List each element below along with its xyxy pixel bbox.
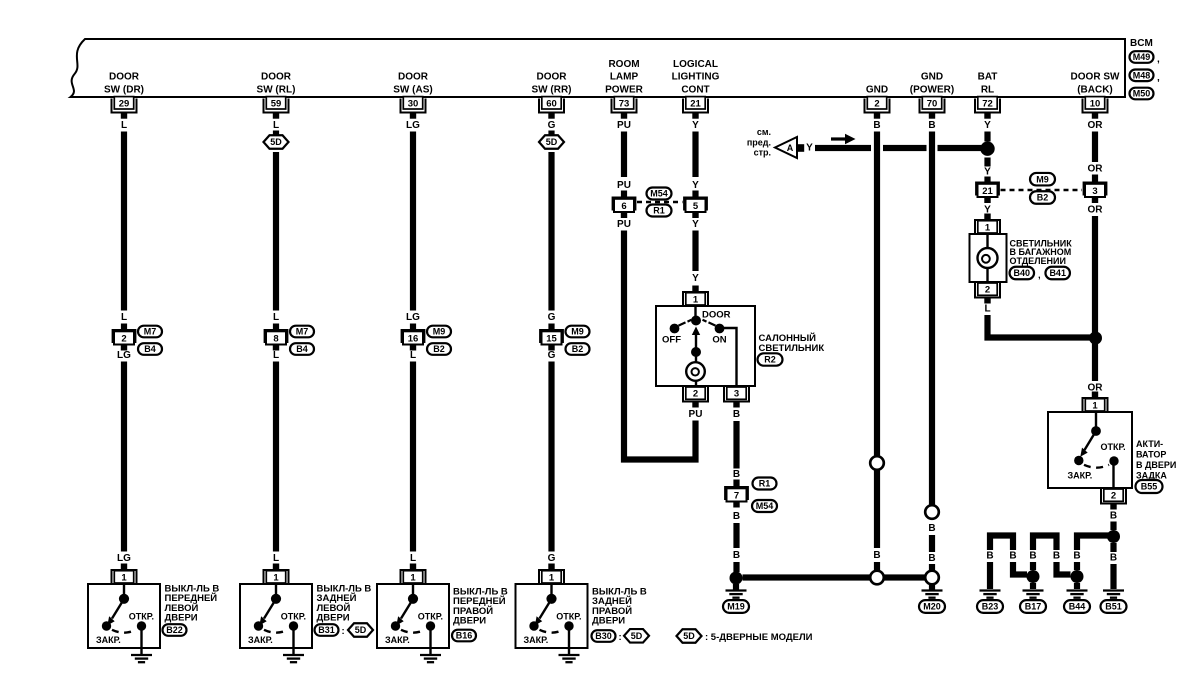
svg-text:Y: Y: [984, 120, 991, 131]
svg-text:B: B: [928, 523, 935, 534]
direction arrow: [831, 134, 856, 144]
svg-text::: :: [342, 626, 345, 637]
wire label L: [121, 120, 127, 131]
svg-text:В ДВЕРИ: В ДВЕРИ: [1136, 460, 1176, 470]
wire label B: [733, 409, 740, 420]
connector oval M9: [427, 326, 451, 338]
trunk lamp bulb: [978, 234, 998, 282]
wire stub: [692, 191, 698, 197]
wire label PU: [689, 409, 703, 420]
svg-text:15: 15: [546, 334, 557, 345]
connector oval M49: [1130, 51, 1161, 65]
wire label LG: [406, 312, 420, 323]
svg-text:R2: R2: [764, 355, 776, 365]
svg-text:G: G: [548, 312, 556, 323]
svg-text:CONT: CONT: [681, 85, 709, 96]
connector oval M7: [290, 326, 314, 338]
svg-text::: :: [619, 632, 622, 643]
svg-text:B23: B23: [982, 602, 999, 612]
svg-text:АКТИ-: АКТИ-: [1136, 439, 1163, 449]
ground M20: [922, 591, 943, 598]
wire OR down to junction: [1092, 216, 1098, 381]
selector arrow: [692, 327, 700, 353]
component oval B16: [452, 630, 476, 642]
svg-text:70: 70: [927, 99, 938, 110]
activator pin 1: [1083, 392, 1108, 413]
wire label L: [273, 350, 279, 361]
svg-text:см.: см.: [757, 127, 771, 137]
wire B to bus junction: [874, 562, 880, 571]
svg-text:R1: R1: [759, 479, 771, 489]
svg-text:LAMP: LAMP: [610, 72, 639, 83]
svg-text:Y: Y: [692, 273, 699, 284]
BCM module body (control unit band): [71, 39, 1126, 97]
wire label B: [928, 553, 935, 564]
svg-text:L: L: [121, 120, 127, 131]
svg-text:30: 30: [408, 99, 419, 110]
pin label GND: [866, 85, 888, 96]
svg-text:1: 1: [273, 572, 279, 583]
svg-text:ОТКР.: ОТКР.: [129, 612, 154, 622]
ground oval B44: [1064, 600, 1090, 613]
label DOOR: [702, 310, 731, 321]
connector oval B2: [427, 343, 451, 355]
svg-text:M49: M49: [1133, 52, 1151, 62]
ground oval B51: [1101, 600, 1127, 613]
svg-text:5D: 5D: [270, 137, 282, 147]
svg-text:7: 7: [734, 491, 739, 502]
wire L trunk lamp to OR node: [988, 315, 1093, 338]
pin label GND (POWER): [910, 72, 954, 96]
ground B23: [980, 591, 1001, 598]
ground oval B17: [1020, 600, 1046, 613]
wire B pin70 down: [929, 132, 935, 506]
contact ЗАКР: [1074, 456, 1083, 465]
wire L pin29 to connector M7: [121, 132, 127, 311]
wire label LG: [406, 120, 420, 131]
svg-text:5D: 5D: [631, 631, 643, 641]
wire label PU: [617, 180, 631, 191]
svg-text:B2: B2: [433, 344, 445, 354]
inline connector pin 8 (M7/B4): [264, 329, 289, 351]
inline connector pin 5 (M54/R1): [683, 197, 708, 219]
svg-text:PU: PU: [617, 120, 631, 131]
svg-text:L: L: [273, 120, 279, 131]
svg-text:ОТКР.: ОТКР.: [1101, 442, 1126, 452]
svg-text:Y: Y: [692, 180, 699, 191]
wire label B: [928, 120, 935, 131]
option marker 5D: [264, 135, 289, 149]
wire label Y: [984, 120, 991, 131]
label ОТКР.: [1101, 442, 1126, 452]
svg-text:M20: M20: [923, 602, 941, 612]
connector oval M54: [647, 188, 672, 200]
svg-text:B30: B30: [595, 631, 612, 641]
connector oval B2: [566, 343, 590, 355]
wire Y pin72 to junction: [984, 132, 990, 142]
interior lamp R2 body: [656, 306, 755, 386]
note see previous page: [747, 127, 771, 158]
svg-text:M9: M9: [571, 327, 584, 337]
junction B17: [1027, 570, 1040, 583]
svg-text:DOOR: DOOR: [702, 310, 731, 321]
svg-text:(BACK): (BACK): [1077, 85, 1113, 96]
svg-text:M19: M19: [727, 602, 745, 612]
ground B17: [1023, 591, 1044, 598]
component oval B40: [1010, 267, 1041, 281]
contact tick ON: [703, 320, 716, 326]
wire B to ground junction: [733, 523, 739, 548]
svg-text:L: L: [410, 350, 416, 361]
svg-text:2: 2: [874, 99, 879, 110]
connector pass-through circle: [925, 505, 939, 519]
svg-text:,: ,: [1157, 54, 1160, 65]
svg-text:L: L: [273, 553, 279, 564]
wire label B: [1110, 553, 1117, 564]
svg-text:SW (DR): SW (DR): [104, 85, 144, 96]
component oval B22: [163, 624, 187, 636]
junction OR / trunk lamp: [1089, 332, 1102, 345]
svg-text:BAT: BAT: [978, 72, 998, 83]
contact ОТКР: [1109, 456, 1118, 465]
svg-text:ОТКР.: ОТКР.: [556, 612, 581, 622]
inline connector pin 3 (M9/B2): [1083, 182, 1108, 204]
legend text: [705, 632, 813, 643]
svg-text:ВАТОР: ВАТОР: [1136, 450, 1166, 460]
svg-text:ЗАКР.: ЗАКР.: [96, 635, 121, 645]
BCM label: [1130, 38, 1153, 49]
label ЗАКР.: [1068, 471, 1093, 481]
wire label PU: [617, 219, 631, 230]
svg-text:,: ,: [1157, 72, 1160, 83]
svg-text:M7: M7: [296, 327, 309, 337]
svg-text:LG: LG: [406, 120, 420, 131]
svg-text:B51: B51: [1105, 602, 1122, 612]
wire LG to door switch B22: [121, 362, 127, 552]
svg-text:B4: B4: [296, 344, 308, 354]
inline connector pin 2 (M7/B4): [112, 329, 137, 351]
svg-text:BCM: BCM: [1130, 38, 1153, 49]
wire label Y: [984, 205, 991, 216]
connector oval R1: [753, 478, 777, 490]
interior lamp R2 pin 2: [683, 386, 708, 408]
component oval R2: [758, 353, 783, 365]
svg-text:B55: B55: [1141, 482, 1158, 492]
svg-text:29: 29: [119, 99, 130, 110]
switch B31 description: [317, 584, 372, 624]
wire label OR: [1088, 205, 1104, 216]
svg-text:B: B: [928, 553, 935, 564]
svg-text:M50: M50: [1133, 89, 1151, 99]
svg-text:B16: B16: [456, 631, 473, 641]
contact OFF: [662, 324, 681, 346]
ground bridge B17-B44: [1030, 536, 1071, 575]
svg-text:L: L: [273, 312, 279, 323]
wire B to ground M19: [733, 562, 739, 572]
junction M19: [730, 572, 743, 585]
svg-text:DOOR SW: DOOR SW: [1071, 72, 1120, 83]
wire B17 junction to ground: [1030, 583, 1036, 589]
wire B continues: [929, 535, 935, 552]
svg-text:3: 3: [734, 389, 739, 400]
trunk lamp pin 1: [975, 214, 1000, 235]
svg-text:73: 73: [619, 99, 630, 110]
wire stub: [733, 480, 739, 487]
lamp R2 selector line: [694, 306, 696, 318]
component oval B30: [592, 630, 622, 643]
svg-text:B: B: [873, 550, 880, 561]
wire label G: [548, 312, 556, 323]
wire stub: [273, 324, 279, 330]
svg-text:B: B: [986, 551, 993, 562]
wire B pin2 down: [874, 132, 880, 457]
wire ON contact to pin 3: [720, 328, 737, 386]
wire G to door switch B30: [548, 362, 554, 552]
svg-text:PU: PU: [617, 180, 631, 191]
svg-text:B: B: [733, 550, 740, 561]
svg-text:1: 1: [985, 222, 991, 233]
svg-text:LG: LG: [117, 350, 131, 361]
svg-text:DOOR: DOOR: [398, 72, 429, 83]
wire label B: [1073, 551, 1080, 562]
svg-text:PU: PU: [689, 409, 703, 420]
svg-text:DOOR: DOOR: [537, 72, 568, 83]
svg-text:B31: B31: [318, 625, 335, 635]
svg-text:M7: M7: [144, 327, 157, 337]
svg-text:ЗАКР.: ЗАКР.: [524, 635, 549, 645]
BCM pin 2: [865, 97, 890, 119]
BCM pin 72: [975, 97, 1000, 119]
svg-text:21: 21: [982, 186, 993, 197]
svg-text:SW (AS): SW (AS): [393, 85, 432, 96]
BCM pin 73: [612, 97, 637, 119]
svg-text:Y: Y: [984, 167, 991, 178]
wire G pin60 to connector M9: [548, 152, 554, 311]
ground bridge B44-B51 bus: [1074, 536, 1110, 571]
wire label B: [928, 523, 935, 534]
svg-text:M48: M48: [1133, 71, 1151, 81]
svg-text:B44: B44: [1069, 602, 1086, 612]
wire L to door switch B16: [410, 362, 416, 552]
ground B44: [1067, 591, 1088, 598]
svg-text:5D: 5D: [683, 631, 695, 641]
svg-text:M9: M9: [433, 327, 446, 337]
svg-text:B: B: [733, 469, 740, 480]
inline connector pin 21 (M9/B2): [975, 182, 1000, 204]
BCM pin 29: [112, 97, 137, 119]
option marker 5D: [539, 135, 564, 149]
pin label DOOR SW (AS): [393, 72, 432, 96]
svg-text:ЗАКР.: ЗАКР.: [248, 635, 273, 645]
switch B16 description: [453, 587, 508, 627]
wire B junction down: [1110, 543, 1116, 552]
activator pin 2: [1101, 488, 1126, 510]
wire label Y: [692, 180, 699, 191]
wire label B: [733, 550, 740, 561]
wire B continues: [874, 470, 880, 548]
travel arc: [1084, 465, 1109, 468]
ground oval M20: [919, 600, 945, 613]
BCM pin 10: [1083, 97, 1108, 119]
svg-text:OR: OR: [1088, 120, 1104, 131]
wire label B: [1009, 551, 1016, 562]
svg-text:B: B: [1110, 511, 1117, 522]
wire label G: [548, 120, 556, 131]
wire label Y: [692, 219, 699, 230]
svg-text:G: G: [548, 350, 556, 361]
bus junction circle: [870, 571, 884, 585]
svg-text:(POWER): (POWER): [910, 85, 954, 96]
legend 5D marker: [677, 629, 702, 643]
option marker 5D: [624, 629, 649, 643]
svg-text:3: 3: [1092, 186, 1097, 197]
svg-text:2: 2: [693, 389, 698, 400]
svg-text:B40: B40: [1014, 268, 1031, 278]
wire label B: [873, 120, 880, 131]
svg-text:60: 60: [546, 99, 557, 110]
ground bridge B23-B17: [990, 536, 1027, 575]
wire label Y: [692, 273, 699, 284]
connector oval B2: [1030, 191, 1055, 204]
svg-text:ДВЕРИ: ДВЕРИ: [165, 613, 198, 624]
svg-text:B: B: [928, 120, 935, 131]
svg-text:10: 10: [1090, 99, 1101, 110]
wire label B: [733, 511, 740, 522]
wire OR pin10 to connector 3: [1092, 132, 1098, 163]
connector pass-through circle: [870, 456, 884, 470]
svg-text:L: L: [273, 350, 279, 361]
svg-text:,: ,: [1038, 270, 1041, 281]
svg-text:L: L: [984, 304, 990, 315]
lamp R2 pivot: [691, 316, 701, 326]
svg-text:1: 1: [410, 572, 416, 583]
svg-text:5D: 5D: [546, 137, 558, 147]
svg-text:1: 1: [693, 294, 699, 305]
wire stub: [121, 324, 127, 330]
svg-text:GND: GND: [921, 72, 943, 83]
connector oval M9: [566, 326, 590, 338]
wire PU pin73 to connector M54: [621, 132, 627, 178]
svg-text:Y: Y: [692, 120, 699, 131]
switch B22 description: [165, 584, 220, 624]
wire B44 junction to ground: [1074, 583, 1080, 589]
svg-text:B: B: [1009, 551, 1016, 562]
wire Y junction to connector 21: [984, 158, 990, 167]
svg-text:ОТДЕЛЕНИИ: ОТДЕЛЕНИИ: [1010, 256, 1066, 266]
option marker 5D: [348, 623, 373, 637]
harness dashed link M9/B2: [1001, 189, 1083, 192]
ground oval B23: [977, 600, 1003, 613]
wire label LG: [117, 350, 131, 361]
switch B30 description: [592, 587, 647, 627]
inline connector pin 16 (M9/B2): [401, 329, 426, 351]
wire ОТКР contact to pin 2: [1112, 461, 1114, 488]
wire label B: [1053, 551, 1060, 562]
wire label LG: [117, 553, 131, 564]
connector oval R1: [647, 205, 672, 217]
svg-text:B2: B2: [572, 344, 584, 354]
svg-text:B: B: [1073, 551, 1080, 562]
svg-text:5: 5: [693, 201, 699, 212]
connector oval M50: [1130, 88, 1154, 100]
svg-text:5D: 5D: [355, 625, 367, 635]
svg-text:2: 2: [1111, 491, 1116, 502]
wire stub: [548, 324, 554, 330]
svg-text:B2: B2: [1037, 193, 1049, 203]
wire Y from previous page to BAT RL node: [815, 145, 984, 151]
pin label LOGICAL LIGHTING CONT: [672, 59, 720, 96]
svg-text:B: B: [873, 120, 880, 131]
svg-text:B: B: [1053, 551, 1060, 562]
wire B lamp pin3 to connector 7: [733, 421, 739, 469]
activator pivot: [1091, 426, 1101, 436]
svg-text:: 5-ДВЕРНЫЕ МОДЕЛИ: : 5-ДВЕРНЫЕ МОДЕЛИ: [705, 632, 813, 643]
wire label B: [873, 550, 880, 561]
harness dashed link M54/R1: [637, 201, 683, 204]
ground M19: [726, 591, 747, 598]
junction B44: [1071, 570, 1084, 583]
door switch B16 (front right door): [377, 564, 449, 656]
wire stub: [548, 131, 554, 136]
interior lamp R2 pin 3: [724, 386, 749, 408]
connector oval M7: [138, 326, 162, 338]
wire label Y: [806, 143, 813, 154]
trunk lamp body: [970, 234, 1007, 282]
wire L pin59 to connector M7: [273, 152, 279, 311]
ground at switch B16: [420, 655, 441, 662]
component oval B41: [1045, 267, 1070, 280]
connector oval B4: [138, 343, 162, 355]
activator description: [1136, 439, 1176, 480]
wire Y pin21 to connector M54: [692, 132, 698, 178]
activator selector line: [1095, 412, 1097, 428]
wire label OR: [1088, 383, 1104, 394]
wire label L: [410, 553, 416, 564]
ground oval M19: [723, 600, 749, 613]
wire label Y: [984, 167, 991, 178]
wire label B: [1110, 511, 1117, 522]
svg-text:пред.: пред.: [747, 138, 771, 148]
svg-text:POWER: POWER: [605, 85, 644, 96]
wire label PU: [617, 120, 631, 131]
wire label OR: [1088, 120, 1104, 131]
pin label ROOM LAMP POWER: [605, 59, 644, 96]
svg-text:ЗАКР.: ЗАКР.: [1068, 471, 1093, 481]
trunk lamp description: [1010, 239, 1073, 266]
BCM pin 59: [264, 97, 289, 119]
svg-text:B: B: [1029, 551, 1036, 562]
svg-text:ОТКР.: ОТКР.: [281, 612, 306, 622]
svg-text:M9: M9: [1036, 174, 1049, 184]
svg-text:SW (RR): SW (RR): [532, 85, 572, 96]
wire B to ground B51: [1110, 564, 1116, 589]
svg-text:ДВЕРИ: ДВЕРИ: [317, 613, 350, 624]
inline connector pin 6 (M54/R1): [612, 197, 637, 219]
pin label DOOR SW (DR): [104, 72, 144, 96]
connector oval M48: [1130, 70, 1161, 84]
svg-text:B17: B17: [1025, 602, 1042, 612]
wire stub: [1092, 175, 1098, 182]
junction BAT RL / Y: [980, 142, 994, 156]
svg-text:B: B: [733, 511, 740, 522]
pin label DOOR SW (RR): [532, 72, 572, 96]
wire label L: [410, 350, 416, 361]
wire B to ground B23: [987, 562, 993, 589]
pin label BAT RL: [978, 72, 998, 96]
svg-text:72: 72: [982, 99, 993, 110]
wire label Y: [692, 120, 699, 131]
svg-text:ДВЕРИ: ДВЕРИ: [453, 616, 486, 627]
